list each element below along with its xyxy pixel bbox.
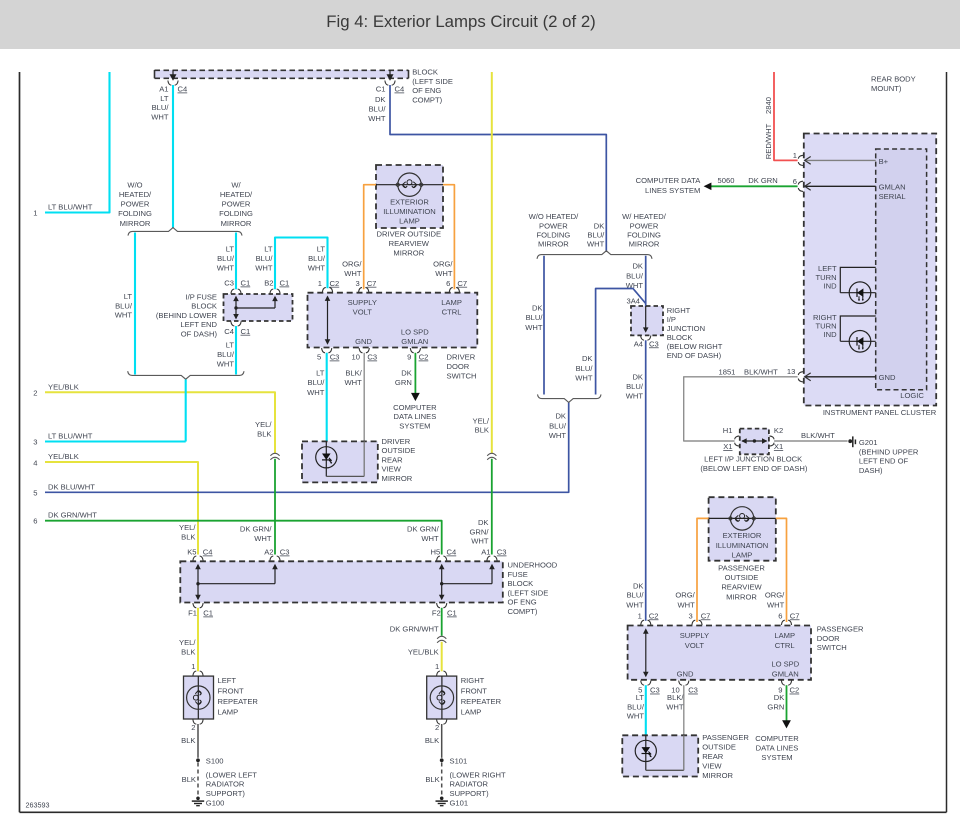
svg-text:COMPUTER: COMPUTER — [393, 403, 437, 412]
svg-text:COMPT): COMPT) — [412, 96, 442, 105]
svg-text:BLU/: BLU/ — [217, 254, 235, 263]
svg-text:WHT: WHT — [471, 537, 489, 546]
svg-text:A1: A1 — [481, 548, 490, 557]
wire LT BLU/WHT passenger mirror pin 5 to ORVM — [627, 685, 646, 735]
svg-text:C3: C3 — [367, 353, 377, 362]
passenger outside rearview mirror connector box — [628, 626, 811, 680]
svg-text:BLU/: BLU/ — [526, 313, 544, 322]
right repeater lamp pin 1 — [435, 662, 447, 676]
svg-text:DK: DK — [632, 262, 643, 271]
svg-text:5: 5 — [33, 488, 37, 497]
svg-text:BLU/: BLU/ — [308, 254, 326, 263]
wire BLK S101 to ground G101 — [425, 763, 506, 798]
svg-text:LT: LT — [264, 245, 273, 254]
I/P fuse block pin C3 C1 — [224, 279, 250, 294]
lamp element (passenger exterior illumination) — [709, 507, 776, 530]
svg-text:A4: A4 — [634, 339, 643, 348]
svg-text:ILLUMINATION: ILLUMINATION — [383, 207, 436, 216]
svg-text:POWER: POWER — [539, 221, 568, 230]
svg-text:VOLT: VOLT — [685, 641, 705, 650]
svg-text:3: 3 — [33, 438, 37, 447]
svg-text:WHT: WHT — [767, 601, 785, 610]
svg-text:RED/WHT: RED/WHT — [764, 123, 773, 159]
svg-text:LEFT I/P JUNCTION BLOCK: LEFT I/P JUNCTION BLOCK — [704, 454, 802, 463]
svg-text:DK GRN/: DK GRN/ — [407, 525, 440, 534]
svg-text:9: 9 — [407, 353, 411, 362]
svg-text:LAMP: LAMP — [774, 631, 795, 640]
svg-text:BLU/: BLU/ — [576, 364, 594, 373]
svg-text:DK: DK — [375, 95, 386, 104]
svg-text:G201: G201 — [859, 438, 878, 447]
svg-text:SERIAL: SERIAL — [879, 192, 906, 201]
svg-text:FOLDING: FOLDING — [537, 231, 571, 240]
svg-text:GRN: GRN — [767, 702, 784, 711]
svg-text:WHT: WHT — [217, 264, 235, 273]
svg-text:C3: C3 — [650, 686, 660, 695]
passenger mirror pin 9 C2 — [778, 681, 799, 695]
brace splitting A1 wire to mirror variants — [128, 228, 242, 236]
svg-text:W/: W/ — [231, 181, 241, 190]
svg-text:BLU/: BLU/ — [626, 271, 644, 280]
svg-text:BLU/: BLU/ — [115, 301, 133, 310]
svg-text:2840: 2840 — [764, 97, 773, 114]
wire DK BLU/WHT A4 to passenger mirror pin 1 — [626, 340, 646, 621]
svg-text:PASSENGER: PASSENGER — [817, 625, 864, 634]
svg-text:RIGHT: RIGHT — [813, 313, 837, 322]
svg-text:C4: C4 — [203, 548, 213, 557]
svg-text:LO SPD: LO SPD — [771, 660, 799, 669]
svg-text:BLK: BLK — [425, 775, 439, 784]
IPC logic block — [876, 149, 927, 400]
svg-text:2: 2 — [191, 723, 195, 732]
svg-text:REAR BODY: REAR BODY — [871, 75, 916, 84]
wire DK GRN circuit 5060 GMLAN to computer data lines — [636, 176, 798, 195]
ground G201 — [848, 436, 919, 475]
right I/P junction block internal wire — [643, 306, 649, 333]
svg-text:WHT: WHT — [254, 534, 272, 543]
driver mirror internal supply bus — [325, 296, 331, 345]
svg-text:POWER: POWER — [630, 221, 659, 230]
svg-text:1: 1 — [191, 662, 195, 671]
svg-text:GMLAN: GMLAN — [879, 182, 906, 191]
svg-text:DK: DK — [401, 369, 412, 378]
svg-text:OUTSIDE: OUTSIDE — [725, 573, 759, 582]
break in wire 2 branch / colour change to DK GRN/WHT — [240, 453, 280, 554]
fuse block internal bus left — [195, 564, 278, 600]
svg-text:DK: DK — [774, 693, 785, 702]
svg-text:C2: C2 — [330, 279, 340, 288]
passenger mirror internal supply bus — [643, 628, 649, 677]
svg-text:LAMP: LAMP — [441, 298, 462, 307]
svg-text:4: 4 — [33, 458, 37, 467]
svg-text:1: 1 — [638, 611, 642, 620]
svg-text:OF ENG: OF ENG — [412, 86, 441, 95]
svg-text:DK: DK — [478, 518, 489, 527]
svg-text:SUPPORT): SUPPORT) — [206, 789, 246, 798]
brace rejoining mirror variants to node 3 — [128, 371, 244, 379]
IPC pin 1 B+ — [793, 151, 889, 166]
svg-text:DRIVER: DRIVER — [447, 353, 476, 362]
svg-text:YEL/: YEL/ — [179, 638, 196, 647]
svg-text:2: 2 — [33, 388, 37, 397]
fuse block pin H5 C4 — [430, 548, 456, 561]
svg-text:ORG/: ORG/ — [342, 260, 362, 269]
svg-text:FUSE: FUSE — [508, 570, 528, 579]
wire YEL/BLK from top to underhood fuse block A1 — [470, 72, 497, 555]
I/P fuse block — [156, 292, 293, 338]
svg-text:INSTRUMENT PANEL CLUSTER: INSTRUMENT PANEL CLUSTER — [823, 408, 937, 417]
svg-text:WHT: WHT — [666, 702, 684, 711]
svg-text:H5: H5 — [430, 548, 440, 557]
svg-text:IND: IND — [824, 282, 838, 291]
svg-text:WHT: WHT — [525, 323, 543, 332]
instrument panel cluster box — [804, 134, 937, 417]
passenger mirror pin 3 C7 — [688, 611, 710, 625]
svg-text:OF ENG: OF ENG — [508, 598, 537, 607]
svg-text:WHT: WHT — [345, 378, 363, 387]
svg-text:BLU/: BLU/ — [626, 382, 644, 391]
svg-text:6: 6 — [33, 517, 37, 526]
right front repeater lamp — [427, 676, 502, 719]
svg-text:LT: LT — [226, 340, 235, 349]
passenger outside rear view mirror box — [622, 733, 749, 780]
svg-text:C7: C7 — [790, 611, 800, 620]
splice S101 — [440, 756, 467, 765]
wire DK BLU/WHT from C1 to passenger mirror brace — [390, 85, 606, 252]
svg-text:BLK/: BLK/ — [667, 693, 684, 702]
svg-text:BLU/: BLU/ — [217, 350, 235, 359]
ground G101 — [436, 797, 469, 808]
svg-text:FRONT: FRONT — [218, 687, 245, 696]
break / colour change to YEL/BLK — [408, 636, 446, 671]
svg-text:WHT: WHT — [151, 112, 169, 121]
svg-text:263593: 263593 — [26, 801, 50, 810]
wire DK GRN passenger GMLAN to computer data lines — [755, 685, 799, 762]
svg-text:MIRROR: MIRROR — [629, 240, 660, 249]
wire BLK left repeater lamp to splice S100 — [181, 724, 198, 758]
svg-text:GND: GND — [677, 669, 694, 678]
svg-text:5060: 5060 — [718, 176, 735, 185]
svg-text:BLU/: BLU/ — [152, 103, 170, 112]
svg-text:MIRROR: MIRROR — [726, 592, 757, 601]
svg-text:LT: LT — [316, 369, 325, 378]
svg-text:CTRL: CTRL — [442, 307, 462, 316]
svg-text:RADIATOR: RADIATOR — [206, 780, 245, 789]
svg-text:C1: C1 — [241, 279, 251, 288]
svg-text:1851: 1851 — [719, 367, 736, 376]
svg-text:C1: C1 — [241, 327, 251, 336]
svg-text:RIGHT: RIGHT — [461, 676, 485, 685]
right repeater lamp pin 2 — [435, 720, 447, 732]
svg-text:FOLDING: FOLDING — [219, 209, 253, 218]
passenger mirror pin 1 C2 — [638, 611, 659, 625]
wire DK GRN/WHT F2 stub — [390, 608, 442, 636]
svg-text:COMPUTER: COMPUTER — [755, 734, 799, 743]
svg-text:C1: C1 — [280, 279, 290, 288]
svg-text:I/P: I/P — [667, 315, 676, 324]
svg-text:S100: S100 — [206, 756, 224, 765]
svg-text:LAMP: LAMP — [218, 707, 239, 716]
svg-text:WHT: WHT — [575, 373, 593, 382]
wire LT BLU/WHT w/o-heated branch — [115, 233, 135, 375]
svg-text:C3: C3 — [649, 339, 659, 348]
svg-text:(BELOW LEFT END OF DASH): (BELOW LEFT END OF DASH) — [700, 464, 807, 473]
svg-text:REPEATER: REPEATER — [218, 697, 259, 706]
left repeater lamp pin 2 — [191, 720, 203, 732]
svg-text:W/ HEATED/: W/ HEATED/ — [622, 212, 667, 221]
svg-text:LT: LT — [160, 94, 169, 103]
right I/P junction block pin A4 C3 — [634, 336, 659, 349]
driver mirror pin labels — [348, 298, 462, 346]
svg-text:MIRROR: MIRROR — [393, 249, 424, 258]
svg-text:W/O: W/O — [127, 181, 142, 190]
svg-text:DK BLU/WHT: DK BLU/WHT — [48, 482, 95, 491]
svg-text:WHT: WHT — [435, 269, 453, 278]
svg-text:OUTSIDE: OUTSIDE — [702, 743, 736, 752]
wire DK BLU/WHT w/-heated branch into junction block — [626, 256, 646, 307]
title bar — [0, 0, 960, 49]
splice S100 — [196, 756, 223, 765]
svg-text:FOLDING: FOLDING — [627, 231, 661, 240]
svg-text:REPEATER: REPEATER — [461, 697, 502, 706]
wire BLK/WHT passenger mirror ground return — [666, 685, 684, 770]
svg-text:MIRROR: MIRROR — [382, 474, 413, 483]
svg-text:LT: LT — [226, 245, 235, 254]
svg-text:BLK: BLK — [181, 532, 195, 541]
svg-text:B+: B+ — [879, 157, 889, 166]
svg-text:MIRROR: MIRROR — [221, 219, 252, 228]
svg-text:W/O HEATED/: W/O HEATED/ — [529, 212, 580, 221]
svg-text:LT: LT — [124, 292, 133, 301]
svg-text:YEL/BLK: YEL/BLK — [48, 452, 79, 461]
svg-text:C7: C7 — [701, 611, 711, 620]
svg-text:YEL/BLK: YEL/BLK — [408, 648, 439, 657]
svg-text:HEATED/: HEATED/ — [220, 190, 253, 199]
svg-text:LEFT: LEFT — [218, 676, 237, 685]
svg-text:C2: C2 — [419, 353, 429, 362]
svg-text:BLOCK: BLOCK — [508, 579, 534, 588]
svg-text:C2: C2 — [790, 686, 800, 695]
svg-text:(BEHIND UPPER: (BEHIND UPPER — [859, 447, 919, 456]
svg-text:MOUNT): MOUNT) — [871, 84, 902, 93]
wire ORG/WHT driver lamp supply — [342, 185, 376, 290]
svg-text:DK: DK — [582, 354, 593, 363]
svg-text:DATA LINES: DATA LINES — [756, 744, 799, 753]
svg-text:C3: C3 — [497, 548, 507, 557]
passenger exterior illumination lamp box — [709, 497, 776, 561]
IPC right turn indicator LED — [813, 313, 876, 352]
svg-text:SWITCH: SWITCH — [817, 643, 847, 652]
svg-text:FOLDING: FOLDING — [118, 209, 152, 218]
wire LT BLU/WHT from C4 down to rejoin brace — [235, 326, 237, 375]
svg-text:C4: C4 — [447, 548, 457, 557]
svg-text:DK: DK — [632, 372, 643, 381]
svg-text:REARVIEW: REARVIEW — [389, 239, 430, 248]
svg-text:VIEW: VIEW — [382, 465, 402, 474]
svg-text:C3: C3 — [280, 548, 290, 557]
svg-text:C1: C1 — [447, 609, 457, 618]
svg-text:WHT: WHT — [307, 388, 325, 397]
svg-text:K2: K2 — [774, 426, 783, 435]
brace splitting C1 wire to passenger mirror variants — [537, 251, 652, 259]
svg-text:X1: X1 — [774, 442, 783, 451]
svg-text:SUPPLY: SUPPLY — [680, 631, 709, 640]
svg-text:DOOR: DOOR — [447, 362, 470, 371]
svg-text:H1: H1 — [723, 426, 733, 435]
svg-text:DRIVER: DRIVER — [382, 437, 411, 446]
svg-text:DK: DK — [594, 221, 605, 230]
brace rejoining passenger variants to node 5 — [538, 394, 602, 402]
svg-text:1: 1 — [793, 151, 797, 160]
svg-text:LEFT: LEFT — [818, 264, 837, 273]
svg-text:LO SPD: LO SPD — [401, 328, 429, 337]
fuse block pin A2 C3 — [264, 548, 289, 561]
fuse block pin F1 C1 — [188, 603, 213, 617]
driver mirror pin 3 C7 — [355, 279, 376, 292]
svg-text:COMPT): COMPT) — [508, 607, 538, 616]
svg-text:YEL/BLK: YEL/BLK — [48, 382, 79, 391]
svg-text:A2: A2 — [264, 548, 273, 557]
svg-text:(LEFT SIDE: (LEFT SIDE — [412, 77, 453, 86]
svg-text:DK GRN/: DK GRN/ — [240, 525, 273, 534]
svg-text:YEL/: YEL/ — [255, 420, 272, 429]
svg-text:G100: G100 — [206, 798, 225, 807]
svg-text:ORG/: ORG/ — [433, 260, 453, 269]
underhood fuse block (left side of engine compartment) — [180, 561, 557, 617]
svg-text:BLK: BLK — [182, 775, 196, 784]
svg-text:DATA LINES: DATA LINES — [394, 412, 437, 421]
svg-text:DK: DK — [633, 582, 644, 591]
left I/P junction pin K2 X1 — [769, 426, 783, 451]
svg-text:LT BLU/WHT: LT BLU/WHT — [48, 203, 93, 212]
svg-text:BLOCK: BLOCK — [667, 333, 693, 342]
svg-text:X1: X1 — [723, 442, 732, 451]
svg-text:DK: DK — [555, 412, 566, 421]
wire DK BLU/WHT w/o-heated branch — [525, 256, 544, 395]
svg-text:BLU/: BLU/ — [256, 254, 274, 263]
node 5 wire DK BLU/WHT — [33, 403, 568, 498]
wire YEL/BLK F1 to left repeater lamp — [179, 608, 198, 672]
right I/P junction block — [631, 306, 723, 360]
svg-text:END OF DASH): END OF DASH) — [667, 351, 722, 360]
svg-text:DASH): DASH) — [859, 466, 883, 475]
IPC pin 13 GND — [787, 367, 896, 382]
svg-text:BLK: BLK — [181, 736, 195, 745]
svg-text:BLU/: BLU/ — [308, 378, 326, 387]
left I/P junction block — [700, 429, 807, 473]
svg-text:(LEFT SIDE: (LEFT SIDE — [508, 588, 549, 597]
svg-text:C7: C7 — [457, 279, 467, 288]
svg-text:10: 10 — [352, 353, 360, 362]
svg-text:PASSENGER: PASSENGER — [702, 733, 749, 742]
svg-text:C3: C3 — [688, 686, 698, 695]
svg-text:OUTSIDE: OUTSIDE — [382, 446, 416, 455]
svg-text:BLK: BLK — [425, 736, 439, 745]
svg-text:ORG/: ORG/ — [675, 591, 695, 600]
svg-text:JUNCTION: JUNCTION — [667, 324, 705, 333]
svg-text:WHT: WHT — [678, 601, 696, 610]
wire BLK S100 to ground G100 — [182, 763, 258, 798]
svg-text:LEFT END: LEFT END — [180, 320, 217, 329]
left I/P junction block internal bus with splice — [741, 438, 767, 444]
wire LT BLU/WHT w/-heated branch to I/P fuse block C3 — [217, 233, 236, 290]
left repeater lamp pin 1 — [191, 662, 203, 676]
svg-text:ILLUMINATION: ILLUMINATION — [716, 541, 769, 550]
svg-text:(LOWER RIGHT: (LOWER RIGHT — [450, 770, 506, 779]
svg-text:SYSTEM: SYSTEM — [399, 422, 430, 431]
svg-text:REAR: REAR — [702, 752, 724, 761]
svg-text:WHT: WHT — [115, 311, 133, 320]
svg-text:C4: C4 — [224, 327, 234, 336]
svg-text:DOOR: DOOR — [817, 634, 840, 643]
svg-text:F1: F1 — [188, 609, 197, 618]
svg-text:BLU/: BLU/ — [627, 702, 645, 711]
svg-text:WHT: WHT — [421, 534, 439, 543]
svg-text:K5: K5 — [187, 548, 196, 557]
svg-text:LOGIC: LOGIC — [900, 391, 924, 400]
svg-text:C1: C1 — [376, 85, 386, 94]
svg-text:WHT: WHT — [626, 392, 644, 401]
svg-text:13: 13 — [787, 367, 795, 376]
wire LT BLU/WHT brace output to node 3 — [185, 380, 187, 442]
driver mirror pin 10 C3 — [352, 348, 378, 361]
driver exterior illumination lamp box — [376, 165, 443, 228]
passenger mirror pin 10 C3 — [671, 681, 698, 695]
svg-text:3A4: 3A4 — [626, 296, 640, 305]
svg-text:WHT: WHT — [308, 264, 326, 273]
lamp element (driver exterior illumination) — [376, 173, 443, 196]
svg-text:BLK/: BLK/ — [345, 369, 362, 378]
svg-text:SWITCH: SWITCH — [447, 371, 477, 380]
svg-text:5: 5 — [317, 353, 321, 362]
svg-text:REARVIEW: REARVIEW — [721, 583, 762, 592]
svg-text:GRN: GRN — [395, 378, 412, 387]
svg-text:LAMP: LAMP — [399, 216, 420, 225]
svg-text:LT: LT — [317, 245, 326, 254]
wire BLK/WHT driver mirror ground return — [345, 353, 365, 477]
svg-text:YEL/: YEL/ — [473, 416, 490, 425]
svg-text:FRONT: FRONT — [461, 687, 488, 696]
svg-text:C4: C4 — [395, 85, 405, 94]
svg-text:C7: C7 — [367, 279, 377, 288]
svg-text:C3: C3 — [330, 353, 340, 362]
svg-text:UNDERHOOD: UNDERHOOD — [508, 561, 558, 570]
node 1 wire LT BLU/WHT — [33, 72, 109, 218]
svg-text:YEL/: YEL/ — [179, 523, 196, 532]
driver outside rear view mirror box — [302, 437, 415, 483]
svg-text:LT: LT — [636, 693, 645, 702]
svg-text:ORG/: ORG/ — [765, 591, 785, 600]
passenger ORVM LED lamp — [635, 735, 684, 770]
svg-text:A1: A1 — [159, 85, 168, 94]
svg-text:LAMP: LAMP — [732, 550, 753, 559]
wire DK BLU/WHT tap from 3A4 to rejoin brace — [596, 289, 646, 395]
left front repeater lamp — [184, 676, 259, 719]
IPC left turn indicator LED — [816, 264, 876, 303]
svg-text:RIGHT: RIGHT — [667, 306, 691, 315]
svg-text:EXTERIOR: EXTERIOR — [390, 198, 429, 207]
svg-text:BLU/: BLU/ — [587, 231, 605, 240]
svg-text:GRN/: GRN/ — [470, 527, 490, 536]
wire ORG/WHT driver lamp control — [433, 185, 454, 290]
svg-text:TURN: TURN — [816, 273, 837, 282]
driver ORVM LED lamp — [316, 441, 365, 476]
svg-text:GMLAN: GMLAN — [401, 337, 428, 346]
svg-text:(BELOW RIGHT: (BELOW RIGHT — [667, 342, 723, 351]
svg-text:3: 3 — [688, 611, 692, 620]
svg-text:3: 3 — [355, 279, 359, 288]
node 2 wire YEL/BLK — [33, 382, 275, 453]
